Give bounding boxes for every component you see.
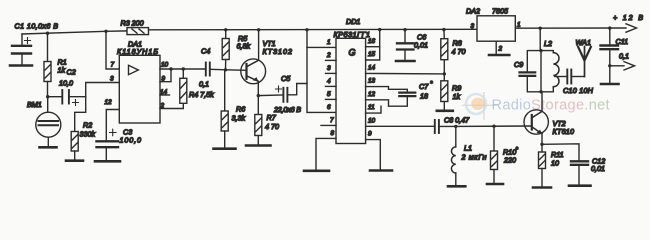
node rail collector bbox=[257, 28, 260, 31]
node rail-R1 bbox=[46, 32, 49, 35]
svg-text:R3 200: R3 200 bbox=[121, 19, 144, 28]
pin 14 stub DA1 bbox=[160, 94, 170, 96]
svg-text:КР531ГГ1: КР531ГГ1 bbox=[334, 30, 371, 39]
node rail pin16 bbox=[378, 28, 381, 31]
node VT2 emitter bbox=[540, 143, 543, 146]
svg-text:10,0: 10,0 bbox=[59, 79, 73, 88]
node pin9 tie bbox=[169, 67, 172, 70]
ground C11 bbox=[601, 83, 619, 86]
ground R9 bbox=[437, 110, 453, 113]
ground BM1 bbox=[40, 146, 57, 149]
svg-text:К118УН1Б: К118УН1Б bbox=[117, 47, 158, 56]
svg-text:8: 8 bbox=[330, 130, 334, 137]
capacitor C11 bbox=[601, 28, 619, 83]
svg-text:С7: С7 bbox=[419, 82, 429, 91]
svg-text:0,1: 0,1 bbox=[619, 52, 629, 61]
resistor R5 bbox=[222, 30, 229, 70]
svg-text:11: 11 bbox=[368, 104, 375, 111]
+12V input arrow bbox=[626, 24, 637, 32]
ground DD1 right bbox=[370, 169, 392, 172]
svg-text:220: 220 bbox=[503, 156, 516, 165]
transistor VT2 bbox=[524, 110, 548, 134]
wire C2 to DA1 pin3 bbox=[86, 83, 120, 97]
common output arrow bbox=[610, 62, 635, 70]
svg-text:КТ610: КТ610 bbox=[553, 127, 575, 136]
node rail C11 bbox=[608, 26, 611, 29]
node base VT1 bbox=[224, 68, 227, 71]
svg-text:2: 2 bbox=[498, 46, 503, 53]
capacitor C5 bbox=[258, 84, 307, 102]
svg-text:R6: R6 bbox=[236, 105, 245, 114]
node R10 bbox=[492, 125, 495, 128]
svg-text:4: 4 bbox=[327, 78, 331, 85]
resistor R11 bbox=[539, 144, 546, 186]
pin 2 stub DD1 bbox=[326, 59, 337, 61]
ground DD1 left bbox=[304, 170, 329, 173]
inductor L1 bbox=[451, 126, 455, 185]
svg-text:330k: 330k bbox=[80, 130, 96, 139]
svg-text:1k: 1k bbox=[453, 92, 461, 101]
resistor R2 bbox=[71, 132, 78, 161]
svg-text:R4 7,5k: R4 7,5k bbox=[189, 90, 214, 99]
svg-text:С4: С4 bbox=[201, 47, 210, 56]
DD1 right pin labels bbox=[368, 38, 376, 138]
svg-text:18: 18 bbox=[420, 92, 428, 101]
ground R6 bbox=[214, 147, 236, 150]
transistor VT1 bbox=[241, 59, 266, 84]
svg-text:1k: 1k bbox=[58, 66, 66, 75]
resistor R7 bbox=[255, 96, 262, 145]
svg-text:5: 5 bbox=[327, 91, 331, 98]
wire DD1 pin10 out bbox=[366, 125, 434, 127]
wire DA1 pin9 tie bbox=[160, 69, 171, 82]
wire DD1 pin16/15 to rail bbox=[366, 29, 380, 60]
ground R11 bbox=[533, 186, 551, 189]
pin 1 stub DD1 bbox=[307, 46, 336, 48]
capacitor C2 bbox=[49, 90, 85, 106]
svg-text:2: 2 bbox=[326, 52, 331, 59]
svg-text:100,0: 100,0 bbox=[120, 136, 142, 145]
svg-text:3,3k: 3,3k bbox=[232, 114, 246, 123]
wire +rail left segment bbox=[22, 31, 127, 34]
wire VT2 collector up bbox=[540, 28, 542, 111]
wire base VT1 bbox=[226, 69, 247, 72]
svg-text:0,1: 0,1 bbox=[199, 80, 209, 89]
svg-text:ВМ1: ВМ1 bbox=[27, 100, 42, 109]
node rail DD1 bbox=[305, 28, 308, 31]
pin 7 stub DD1 bbox=[321, 124, 336, 126]
node rail R5 bbox=[224, 28, 227, 31]
svg-text:12: 12 bbox=[105, 99, 113, 106]
wire L2 tap bbox=[555, 76, 567, 78]
wire DD1 pin13 to C7 bbox=[366, 87, 408, 92]
wire VT2 emitter bbox=[541, 134, 543, 145]
svg-text:С8 0,47: С8 0,47 bbox=[444, 116, 470, 125]
resistor R9 bbox=[441, 74, 448, 110]
svg-text:RadioStorage.net: RadioStorage.net bbox=[492, 98, 610, 114]
svg-text:12: 12 bbox=[368, 91, 376, 98]
pin 12 wire DA1 bbox=[106, 110, 119, 141]
pin 4 stub DD1 bbox=[326, 85, 337, 87]
node L1 bbox=[454, 125, 457, 128]
ground C3 bbox=[95, 160, 120, 163]
svg-text:7: 7 bbox=[330, 117, 334, 124]
wire C7 to DD1 pin12 bbox=[366, 97, 408, 107]
node tank top bbox=[539, 49, 542, 52]
svg-text:3: 3 bbox=[110, 76, 114, 83]
wire VT1 emitter down bbox=[257, 81, 259, 95]
svg-text:3: 3 bbox=[471, 23, 475, 30]
ground R7 bbox=[246, 144, 271, 147]
ground C6 bbox=[396, 60, 415, 63]
svg-text:9: 9 bbox=[368, 131, 372, 138]
wire DA1 pin10 output bbox=[160, 68, 205, 70]
wire +rail mid segment bbox=[149, 28, 478, 31]
svg-text:С2: С2 bbox=[67, 68, 76, 77]
wire VT1 collector to rail bbox=[258, 30, 260, 60]
svg-text:L2: L2 bbox=[544, 39, 552, 48]
node emitter bbox=[257, 94, 260, 97]
svg-text:R2: R2 bbox=[83, 121, 92, 130]
DD1 left pin labels bbox=[326, 39, 335, 137]
capacitor C3 bbox=[97, 129, 119, 160]
node rail C6 bbox=[403, 28, 406, 31]
node rail tank bbox=[539, 27, 542, 30]
pin 3 stub DD1 bbox=[326, 72, 337, 74]
wire rail to DA1 pin7 bbox=[106, 31, 119, 69]
node rail-DA1pin7 bbox=[104, 30, 107, 33]
antenna WA1 bbox=[578, 47, 591, 77]
pin 8 to ground DD1 bbox=[316, 138, 336, 169]
resistor R4 bbox=[180, 69, 187, 103]
svg-text:3: 3 bbox=[327, 65, 331, 72]
svg-text:G: G bbox=[349, 47, 356, 57]
wire DA1 pin2 to R4 bbox=[160, 103, 183, 108]
capacitor C12 bbox=[542, 144, 588, 185]
node rail R8 bbox=[442, 28, 445, 31]
svg-text:7: 7 bbox=[111, 62, 115, 69]
pin 16 stub bbox=[366, 46, 380, 48]
ground R10 bbox=[487, 183, 503, 186]
capacitor C1 bbox=[12, 34, 31, 65]
svg-text:L1: L1 bbox=[464, 144, 472, 153]
svg-text:10: 10 bbox=[161, 62, 169, 69]
capacitor C9 bbox=[520, 51, 542, 92]
svg-text:16: 16 bbox=[368, 38, 376, 45]
svg-text:1: 1 bbox=[327, 39, 331, 46]
svg-text:1: 1 bbox=[517, 22, 521, 29]
svg-text:С10 10Н: С10 10Н bbox=[563, 86, 594, 95]
wire +rail right segment bbox=[515, 27, 626, 29]
IC DD1 bbox=[336, 38, 366, 143]
svg-text:6,8k: 6,8k bbox=[237, 42, 251, 51]
ground R2 bbox=[66, 159, 83, 162]
svg-text:0,01: 0,01 bbox=[414, 41, 428, 50]
svg-text:22,0х6 В: 22,0х6 В bbox=[273, 105, 301, 114]
wire DD1 pin11 tie bbox=[366, 106, 381, 113]
resistor R6 bbox=[221, 70, 228, 149]
svg-text:R7: R7 bbox=[267, 113, 277, 122]
watermark logo bbox=[462, 92, 497, 120]
svg-text:4 70: 4 70 bbox=[452, 47, 466, 56]
svg-text:15: 15 bbox=[368, 51, 376, 58]
svg-text:WA1: WA1 bbox=[576, 38, 591, 47]
capacitor C10 bbox=[567, 70, 584, 84]
svg-text:13: 13 bbox=[368, 78, 376, 85]
svg-text:2 мкГн: 2 мкГн bbox=[461, 153, 487, 162]
voltage regulator DA2 bbox=[477, 16, 515, 41]
svg-text:DD1: DD1 bbox=[346, 17, 360, 26]
resistor R10 bbox=[491, 126, 498, 183]
ground L1 bbox=[448, 185, 465, 188]
svg-text:DA2: DA2 bbox=[466, 7, 480, 16]
wire DD1 pin1/pin6 net bbox=[307, 30, 336, 113]
ground C1 bbox=[10, 64, 32, 67]
capacitor C4 bbox=[206, 63, 226, 76]
ground C12 bbox=[569, 184, 591, 187]
microphone BM1 bbox=[36, 97, 61, 147]
svg-text:10: 10 bbox=[368, 117, 376, 124]
pin 5 stub DD1 bbox=[326, 98, 337, 100]
svg-text:7805: 7805 bbox=[492, 7, 509, 16]
wire to VT2 base bbox=[456, 125, 532, 127]
wire DD1 pin9 to ground bbox=[366, 140, 381, 170]
node R8 R9 pin14 bbox=[443, 72, 446, 75]
node R4 top bbox=[182, 67, 185, 70]
ground DA2 bbox=[489, 41, 509, 55]
node tank bottom bbox=[539, 90, 542, 93]
resistor R8 bbox=[441, 30, 448, 74]
svg-text:14: 14 bbox=[368, 64, 376, 71]
resistor R3 bbox=[127, 28, 149, 35]
resistor R1 bbox=[44, 33, 51, 96]
op-amp DA1 bbox=[119, 55, 160, 123]
svg-text:С1 10,0х6 В: С1 10,0х6 В bbox=[15, 22, 59, 31]
svg-text:С9: С9 bbox=[514, 60, 523, 69]
svg-text:4 70: 4 70 bbox=[265, 122, 279, 131]
node C11 bottom bbox=[608, 64, 611, 67]
svg-text:0,01: 0,01 bbox=[591, 164, 605, 173]
svg-text:С11: С11 bbox=[616, 37, 629, 46]
wire DD1 pin14 to R8R9 bbox=[366, 72, 445, 75]
inductor L2 bbox=[541, 51, 559, 92]
wire C2 node to R2 bbox=[75, 97, 86, 132]
node mic/C2 bbox=[46, 95, 49, 98]
capacitor C6 bbox=[397, 30, 414, 60]
capacitor C7 bbox=[399, 93, 415, 97]
svg-text:10: 10 bbox=[551, 159, 559, 168]
svg-text:С5: С5 bbox=[281, 74, 291, 83]
capacitor C8 bbox=[435, 120, 456, 133]
svg-text:КТ3102: КТ3102 bbox=[263, 47, 293, 56]
svg-text:6: 6 bbox=[327, 104, 331, 111]
